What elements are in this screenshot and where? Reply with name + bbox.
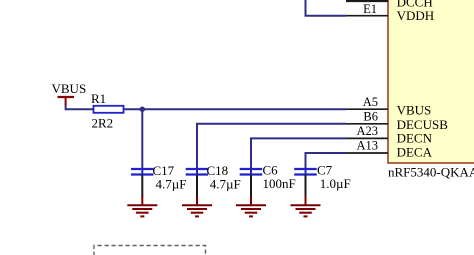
svg-text:B6: B6 [363,110,378,124]
ground symbol (C7) [291,196,321,216]
junction node on VBUS rail [140,107,145,112]
wire C6 to ground [250,175,252,198]
svg-text:VBUS: VBUS [52,81,87,96]
pin A13 DECA [346,152,388,154]
wire C18 to pin B6 [197,124,346,169]
svg-text:4.7µF: 4.7µF [210,176,241,191]
pin A23 DECN [346,137,388,139]
svg-text:DECA: DECA [397,145,433,160]
svg-text:100nF: 100nF [263,176,296,191]
power port VBUS [52,81,87,110]
pin B6 DECUSB [346,123,388,125]
svg-text:R1: R1 [91,91,106,106]
wire junction to C17 [141,109,143,169]
wire VDDH net (top left, from off-page to pin E1) [306,0,347,16]
svg-text:C7: C7 [317,162,333,177]
wire C17 to ground [141,175,143,198]
capacitor C7 1.0uF [294,162,351,191]
svg-text:nRF5340-QKAA: nRF5340-QKAA [388,164,474,179]
ground symbol (C17) [127,196,157,216]
svg-text:VBUS: VBUS [397,103,432,118]
capacitor C17 4.7uF [131,163,186,192]
capacitor C6 100nF [240,162,296,191]
svg-text:A5: A5 [363,95,378,109]
ground symbol (C18) [182,196,212,216]
IC U1 nRF5340-QKAA body [388,0,474,163]
wire C7 to ground [305,175,307,198]
svg-text:C6: C6 [263,162,279,177]
wire main VBUS rail [66,108,346,110]
resistor R1 2R2 [91,91,124,130]
svg-text:DECN: DECN [397,130,433,145]
wire C6 to pin A23 [251,138,346,169]
pin DCCH (top, cut off) [346,0,388,2]
capacitor C18 4.7uF [186,163,241,192]
svg-text:VDDH: VDDH [397,8,435,23]
ground symbol (C6) [236,196,266,216]
pin A5 VBUS [346,108,388,110]
svg-text:E1: E1 [363,2,377,16]
svg-text:A23: A23 [356,124,378,138]
wire C18 to ground [196,175,198,198]
dashed box (bottom, cut off) [94,246,206,255]
svg-text:1.0µF: 1.0µF [320,176,351,191]
svg-text:A13: A13 [356,139,378,153]
svg-text:4.7µF: 4.7µF [156,176,187,191]
svg-text:2R2: 2R2 [92,115,114,130]
wire C7 to pin A13 [306,153,347,169]
pin E1 VDDH [346,15,388,17]
